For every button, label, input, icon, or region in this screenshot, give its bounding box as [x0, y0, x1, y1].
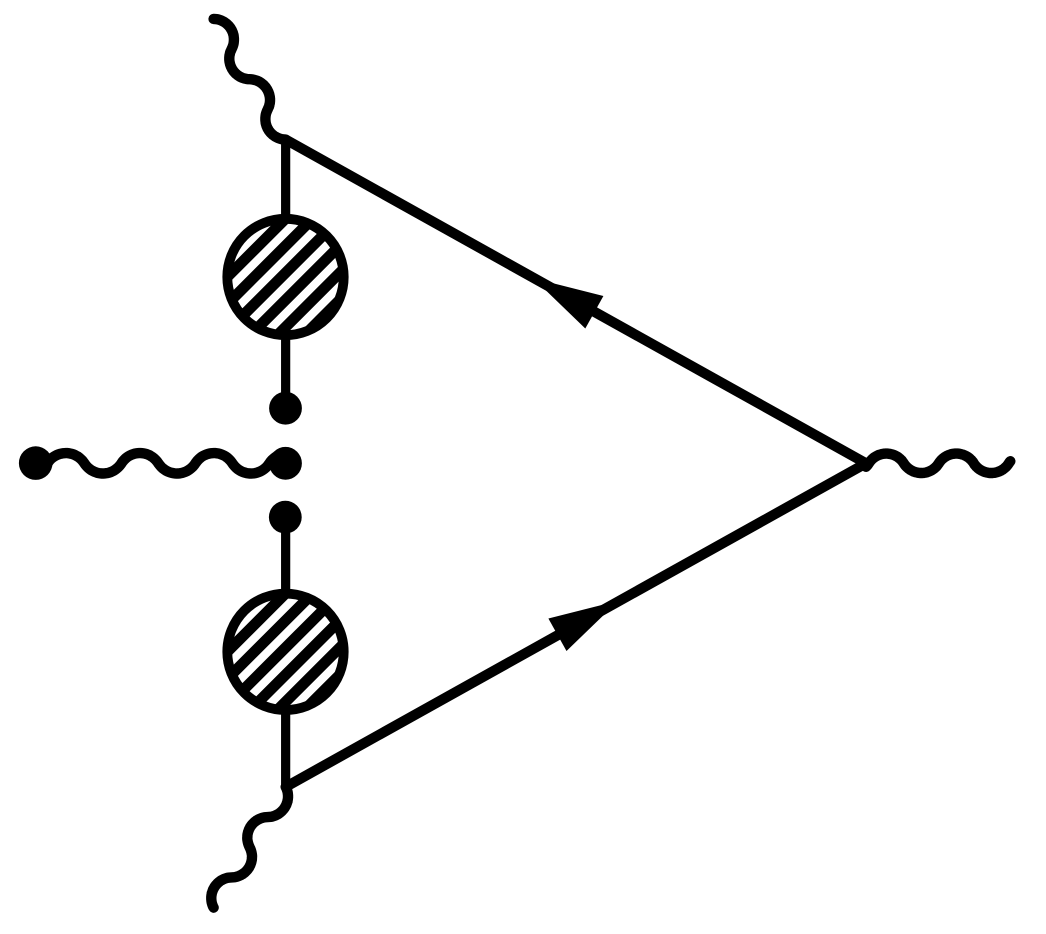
- vertex dot at middle photon right end: [269, 447, 302, 480]
- vertex dot above middle photon: [269, 392, 302, 425]
- vertex dot below middle photon: [269, 501, 302, 534]
- photon: external wavy line bottom-left: [211, 787, 288, 908]
- photon: horizontal wavy line middle-left: [36, 453, 290, 473]
- hatched blob (upper self-energy insertion): [222, 214, 348, 340]
- wire: vertical segment upper blob to dot: [281, 335, 290, 409]
- hatched blob (lower self-energy insertion): [222, 588, 348, 714]
- wire: vertical segment lower blob to bottom vertex: [281, 709, 290, 789]
- arrow on upper fermion line: [533, 278, 603, 328]
- vertex dot at middle photon left end: [19, 446, 53, 480]
- photon: external wavy line right: [866, 454, 1010, 473]
- fermion line: bottom vertex to right vertex: [286, 463, 866, 787]
- fermion line: right vertex to top vertex: [286, 140, 866, 464]
- wire: vertical segment dot to lower blob: [281, 517, 290, 594]
- arrow on lower fermion line: [548, 601, 618, 651]
- wire: vertical segment top vertex to upper blob: [281, 138, 290, 219]
- photon: external wavy line top-left: [214, 19, 286, 140]
